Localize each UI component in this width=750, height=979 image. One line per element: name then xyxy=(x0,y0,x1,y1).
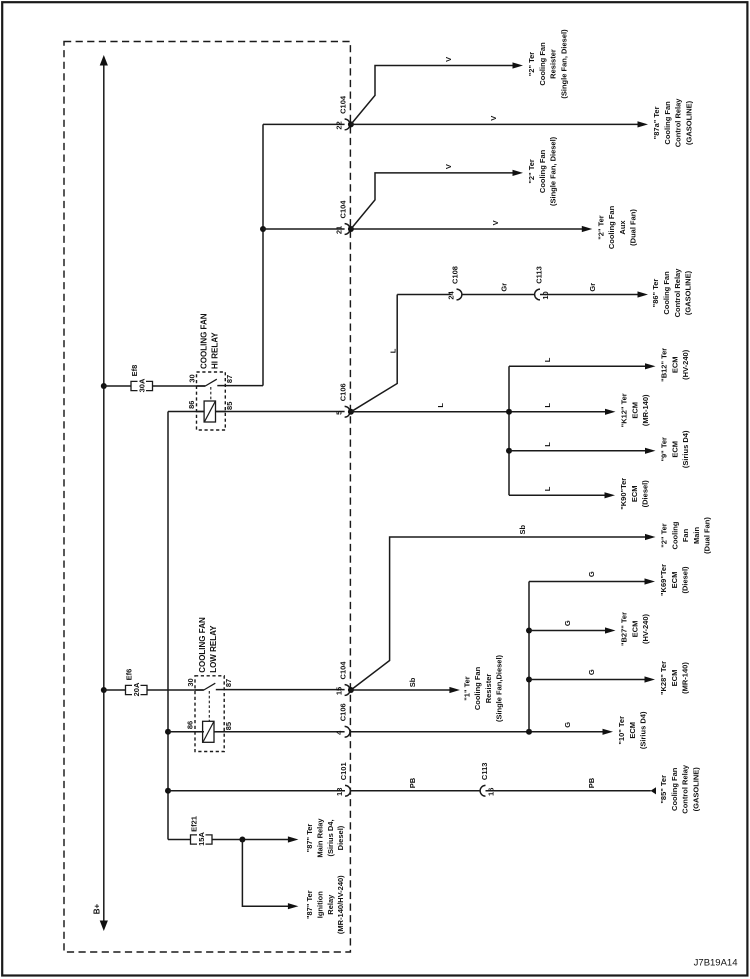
svg-text:(Single Fan, Diesel): (Single Fan, Diesel) xyxy=(549,136,558,206)
wire G main row xyxy=(350,731,609,733)
svg-text:G: G xyxy=(563,722,572,728)
svg-text:Main: Main xyxy=(692,527,701,545)
svg-text:30A: 30A xyxy=(138,378,147,392)
svg-text:Relay: Relay xyxy=(326,894,335,915)
svg-text:Main Relay: Main Relay xyxy=(316,818,325,858)
svg-text:Resister: Resister xyxy=(484,674,493,704)
svg-text:"1" Ter: "1" Ter xyxy=(462,676,471,701)
svg-text:"K12" Ter: "K12" Ter xyxy=(620,393,629,427)
svg-text:(GASOLINE): (GASOLINE) xyxy=(684,270,693,315)
svg-text:C113: C113 xyxy=(480,763,489,781)
svg-text:C113: C113 xyxy=(534,266,543,284)
svg-text:87: 87 xyxy=(224,679,233,687)
svg-text:Cooling Fan: Cooling Fan xyxy=(663,101,672,145)
junction after 15 C104 xyxy=(348,687,354,693)
svg-text:Cooling Fan: Cooling Fan xyxy=(607,205,616,249)
wire B+ to fuse Ef6 xyxy=(104,689,126,691)
svg-text:C106: C106 xyxy=(339,703,348,721)
svg-text:V: V xyxy=(489,116,498,121)
svg-text:LOW RELAY: LOW RELAY xyxy=(209,625,218,673)
arrow to K90 ECM xyxy=(605,492,616,498)
wire Gr between C108 and C113 xyxy=(462,294,535,296)
svg-text:21: 21 xyxy=(335,226,344,234)
arrow to 10 ECM xyxy=(603,729,614,735)
svg-text:"87" Ter: "87" Ter xyxy=(305,824,314,853)
relay K1 COOLING FAN HI RELAY xyxy=(197,372,226,430)
svg-text:ECM: ECM xyxy=(628,722,637,739)
svg-text:10: 10 xyxy=(541,291,550,299)
svg-text:L: L xyxy=(388,348,397,353)
wire to B27 arrow xyxy=(529,630,611,632)
svg-text:(GASOLINE): (GASOLINE) xyxy=(684,100,693,145)
arrow to 1 Ter resister xyxy=(449,687,460,693)
svg-text:"K90"Ter: "K90"Ter xyxy=(619,478,628,510)
svg-text:Cooling Fan: Cooling Fan xyxy=(538,149,547,193)
connector 22 C104 xyxy=(345,119,350,130)
svg-text:87: 87 xyxy=(225,375,234,383)
wire HI relay 86 from riser x168 xyxy=(168,411,204,413)
Sb wire to cooling fan main xyxy=(351,537,651,690)
svg-text:30: 30 xyxy=(186,678,195,686)
junction G B27 row xyxy=(526,628,532,634)
svg-text:Ef6: Ef6 xyxy=(125,669,134,681)
arrow to K12 ECM xyxy=(605,409,616,415)
arrow to 87 Ter main relay xyxy=(288,836,299,842)
svg-text:Diesel): Diesel) xyxy=(336,825,345,850)
wire riser to connector 13 C101 xyxy=(168,790,345,792)
relay K2 COOLING FAN LOW RELAY xyxy=(195,676,224,752)
connector 13 C101 xyxy=(345,785,350,796)
arrow to B12 ECM xyxy=(645,363,656,369)
svg-text:85: 85 xyxy=(225,402,234,410)
svg-text:13: 13 xyxy=(335,788,344,796)
svg-text:15: 15 xyxy=(335,687,344,695)
node B+ supply rail xyxy=(103,63,105,923)
connector 15 C104 xyxy=(345,685,350,696)
wire HI relay 87 to node at x264 xyxy=(225,385,263,387)
svg-text:ECM: ECM xyxy=(630,402,639,419)
wire L main row xyxy=(350,411,611,413)
svg-text:20A: 20A xyxy=(132,682,141,696)
svg-text:L: L xyxy=(436,403,445,408)
svg-text:C106: C106 xyxy=(339,383,348,401)
svg-text:Sb: Sb xyxy=(408,677,417,687)
svg-text:"K69"Ter: "K69"Ter xyxy=(659,564,668,596)
svg-text:"10" Ter: "10" Ter xyxy=(617,716,626,745)
arrow to 86 Ter control relay xyxy=(638,291,649,297)
svg-text:(MR-140): (MR-140) xyxy=(641,394,650,426)
wire to B12 arrow xyxy=(509,365,651,367)
svg-text:15A: 15A xyxy=(197,832,206,846)
arrow to K28 ECM xyxy=(645,676,656,682)
svg-text:L: L xyxy=(543,486,552,491)
arrow from 85 Ter control relay (incoming) xyxy=(651,787,657,794)
svg-text:86: 86 xyxy=(186,721,195,729)
svg-text:Resister: Resister xyxy=(549,49,558,79)
junction G main row xyxy=(526,729,532,735)
svg-text:85: 85 xyxy=(224,722,233,730)
svg-text:(Sirius D4): (Sirius D4) xyxy=(681,430,690,468)
branch diagonal 5 C106 to Gr riser xyxy=(351,295,397,412)
svg-text:5: 5 xyxy=(335,411,344,415)
svg-text:COOLING FAN: COOLING FAN xyxy=(198,617,207,673)
L branch riser x509 xyxy=(508,366,510,495)
junction G K28 row xyxy=(526,677,532,683)
svg-text:Ignition: Ignition xyxy=(316,891,325,918)
svg-text:ECM: ECM xyxy=(670,670,679,687)
svg-text:"87a" Ter: "87a" Ter xyxy=(652,106,661,139)
arrow to 2 Ter aux xyxy=(582,226,593,232)
svg-text:(Dual Fan): (Dual Fan) xyxy=(629,209,638,246)
wire to K90 arrow xyxy=(509,494,610,496)
svg-text:Gr: Gr xyxy=(588,283,597,292)
svg-text:"B27" Ter: "B27" Ter xyxy=(620,612,629,646)
wire row to connector 21 C104 xyxy=(263,228,345,230)
junction L 9-row xyxy=(506,448,512,454)
svg-text:C104: C104 xyxy=(339,661,348,680)
svg-text:Control Relay: Control Relay xyxy=(673,268,682,318)
svg-text:(Dual Fan): (Dual Fan) xyxy=(703,517,712,554)
svg-text:L: L xyxy=(543,442,552,447)
svg-text:Cooling Fan: Cooling Fan xyxy=(473,666,482,710)
wire riser to LOW coil 86 xyxy=(168,731,204,733)
wire LOW coil 85 to connector 4 C106 xyxy=(216,731,345,733)
svg-text:HI RELAY: HI RELAY xyxy=(210,332,219,369)
connector 4 C106 xyxy=(345,726,350,737)
arrow to K69 ECM xyxy=(645,578,656,584)
svg-text:Gr: Gr xyxy=(500,283,509,292)
svg-text:Fan: Fan xyxy=(681,528,690,542)
svg-text:PB: PB xyxy=(408,777,417,788)
B+ arrowhead top xyxy=(100,55,108,66)
svg-text:V: V xyxy=(444,57,453,62)
B+ arrowhead bottom xyxy=(100,921,108,932)
svg-text:Ef8: Ef8 xyxy=(130,365,139,377)
junction on B+ rail to fuse Ef8 xyxy=(101,383,107,389)
wire fuse Ef6 to LOW relay 30 xyxy=(147,689,204,691)
wire Sb to resister arrow xyxy=(350,689,455,691)
svg-text:(Sirius D4): (Sirius D4) xyxy=(639,711,648,749)
svg-text:Aux: Aux xyxy=(618,220,627,235)
svg-text:ECM: ECM xyxy=(630,621,639,638)
wire fuse Ef8 to relay 30 xyxy=(153,385,206,387)
wire row to connector 22 C104 xyxy=(263,123,345,125)
fuse Ef6 20A xyxy=(126,685,133,694)
svg-text:Cooling Fan: Cooling Fan xyxy=(670,767,679,811)
svg-text:ECM: ECM xyxy=(670,441,679,458)
svg-text:(Diesel): (Diesel) xyxy=(681,566,690,594)
svg-text:V: V xyxy=(491,220,500,225)
svg-text:Control Relay: Control Relay xyxy=(674,98,683,148)
wire HI coil 85 to connector 5 C106 xyxy=(216,411,345,413)
wire to K69 arrow xyxy=(529,581,650,583)
fuse Ef8 30A xyxy=(131,381,138,390)
svg-text:(HV-240): (HV-240) xyxy=(681,349,690,380)
arrow to 2 Ter cooling fan main xyxy=(645,534,656,540)
svg-text:16: 16 xyxy=(486,788,495,796)
svg-text:(Diesel): (Diesel) xyxy=(641,480,650,508)
svg-text:"86" Ter: "86" Ter xyxy=(651,279,660,308)
svg-text:Cooling Fan: Cooling Fan xyxy=(662,271,671,315)
svg-text:Sb: Sb xyxy=(518,524,527,534)
svg-text:"2" Ter: "2" Ter xyxy=(527,52,536,77)
svg-text:Ef21: Ef21 xyxy=(190,816,199,832)
arrow to 87a Ter xyxy=(638,121,649,127)
arrow to 9 ECM xyxy=(645,448,656,454)
junction after 22 C104 xyxy=(348,121,354,127)
arrow to 87 Ter ignition relay xyxy=(288,903,299,909)
arrow to 2 Ter cooling fan single xyxy=(513,170,524,176)
wire to K28 arrow xyxy=(529,679,650,681)
connector 21 C104 xyxy=(345,224,350,235)
wire LOW relay 87 to connector 15 C104 xyxy=(224,689,344,691)
svg-text:G: G xyxy=(563,620,572,626)
svg-text:24: 24 xyxy=(447,291,456,300)
branch down to ignition relay arrow xyxy=(242,840,293,907)
svg-text:G: G xyxy=(587,669,596,675)
wire PB to 85 Ter arrow xyxy=(486,790,651,792)
svg-text:Cooling Fan: Cooling Fan xyxy=(538,42,547,86)
svg-text:C104: C104 xyxy=(339,95,348,114)
svg-text:ECM: ECM xyxy=(630,485,639,502)
svg-text:L: L xyxy=(543,403,552,408)
svg-text:86: 86 xyxy=(187,401,196,409)
svg-text:(Sirius D4,: (Sirius D4, xyxy=(326,819,335,856)
svg-text:C101: C101 xyxy=(339,762,348,780)
svg-text:"87" Ter: "87" Ter xyxy=(305,890,314,919)
junction on B+ rail to fuse Ef6 xyxy=(101,687,107,693)
svg-text:"K28" Ter: "K28" Ter xyxy=(659,661,668,695)
svg-text:Control Relay: Control Relay xyxy=(681,764,690,814)
svg-text:B+: B+ xyxy=(93,903,102,914)
junction after 5 C106 xyxy=(348,409,354,415)
junction riser/row21 xyxy=(260,226,266,232)
svg-text:C104: C104 xyxy=(339,200,348,219)
svg-text:"9" Ter: "9" Ter xyxy=(660,437,669,462)
harness dashed boundary box xyxy=(64,42,350,953)
wire riser x264 up to row 22C104 xyxy=(262,124,264,385)
wire PB to C113 xyxy=(350,790,480,792)
svg-text:ECM: ECM xyxy=(670,572,679,589)
connector 24 C108 inline xyxy=(457,289,462,300)
svg-text:ECM: ECM xyxy=(670,356,679,373)
svg-text:Cooling: Cooling xyxy=(670,521,679,549)
svg-text:"85" Ter: "85" Ter xyxy=(659,775,668,804)
wire to 9 Ter arrow xyxy=(509,450,651,452)
svg-text:(MR-140/HV-240): (MR-140/HV-240) xyxy=(336,875,345,934)
connector 5 C106 xyxy=(345,406,350,417)
svg-text:(GASOLINE): (GASOLINE) xyxy=(691,767,700,812)
svg-text:(Single Fan,Diesel): (Single Fan,Diesel) xyxy=(495,654,504,722)
svg-text:PB: PB xyxy=(587,777,596,788)
svg-text:L: L xyxy=(543,357,552,362)
svg-text:"B12" Ter: "B12" Ter xyxy=(660,348,669,382)
svg-text:COOLING FAN: COOLING FAN xyxy=(199,313,208,369)
junction L main row xyxy=(506,409,512,415)
svg-text:30: 30 xyxy=(187,374,196,382)
svg-text:J7B19A14: J7B19A14 xyxy=(694,958,738,969)
arrow to B27 ECM xyxy=(605,627,616,633)
junction 13 C101 row on riser x168 xyxy=(165,788,171,794)
wire fuse Ef21 to junction xyxy=(212,839,294,841)
svg-text:G: G xyxy=(587,571,596,577)
svg-text:"2" Ter: "2" Ter xyxy=(527,159,536,184)
arrow to 2 Ter resister xyxy=(513,62,524,68)
svg-text:"2" Ter: "2" Ter xyxy=(596,215,605,240)
branch diagonal from 22 C104 xyxy=(351,66,519,125)
svg-text:(HV-240): (HV-240) xyxy=(641,613,650,644)
wire riser x168 to fuse Ef21 xyxy=(168,839,191,841)
riser x168 from HI coil down to Ef21 row xyxy=(167,412,169,840)
svg-text:22: 22 xyxy=(335,121,344,129)
junction after 21 C104 xyxy=(348,226,354,232)
svg-text:(Single Fan, Diesel): (Single Fan, Diesel) xyxy=(559,29,568,99)
wire B+ to fuse Ef8 xyxy=(104,385,131,387)
fuse Ef21 15A xyxy=(191,835,198,844)
wire riser top to connector 24 C108 xyxy=(397,294,451,296)
svg-text:V: V xyxy=(444,164,453,169)
branch diagonal from 21 C104 xyxy=(351,173,519,229)
junction after Ef21 xyxy=(239,837,245,843)
G branch riser x529 xyxy=(528,582,530,732)
svg-text:(MR-140): (MR-140) xyxy=(681,662,690,694)
connector C113 10 inline xyxy=(535,289,540,300)
wire V to cooling fan aux arrow xyxy=(350,228,588,230)
connector C113 16 inline xyxy=(480,785,485,796)
wire V to 87a arrow xyxy=(350,123,640,125)
wire Gr to 86 Ter arrow xyxy=(540,294,643,296)
svg-text:"2" Ter: "2" Ter xyxy=(660,523,669,548)
junction LOW coil 86 on riser x168 xyxy=(165,729,171,735)
svg-text:C108: C108 xyxy=(450,266,459,284)
